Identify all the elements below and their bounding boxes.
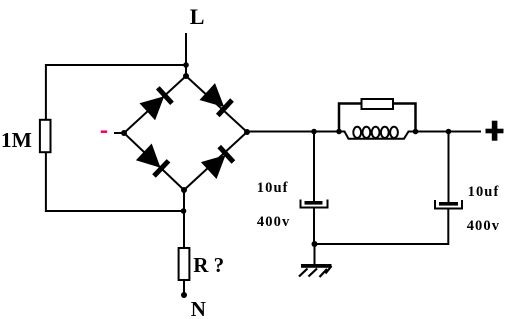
terminal label L: [190, 4, 205, 29]
svg-text:400v: 400v: [467, 218, 500, 234]
resistor R2 (parallel with choke): [362, 99, 394, 109]
resistor R?: [179, 248, 190, 280]
svg-text:10uf: 10uf: [468, 184, 500, 200]
inductor L1 (choke): [339, 127, 416, 139]
wire junction to resistor R?: [183, 211, 185, 248]
wire left capacitor top lead: [313, 132, 315, 202]
diode D1: [140, 88, 173, 120]
terminal label N: [191, 297, 206, 319]
node junction right capacitor: [446, 129, 452, 135]
wire parallel resistor right riser: [393, 104, 416, 132]
svg-text:R ?: R ?: [193, 253, 224, 277]
wire top horizontal to 1M branch: [45, 64, 186, 66]
label C2 400v: [467, 218, 500, 234]
wire bottom horizontal of 1M loop: [45, 210, 184, 212]
wire left vertical lower (1M to bottom): [45, 152, 47, 211]
wire bottom horizontal between capacitors: [315, 243, 449, 245]
node minus stub: [114, 132, 124, 134]
svg-text:L: L: [190, 4, 205, 29]
diode D2: [200, 83, 233, 115]
svg-text:400v: 400v: [257, 214, 290, 230]
wire bridge bottom to junction: [183, 190, 185, 211]
wire left vertical upper (to 1M): [45, 64, 47, 120]
terminal plus: [486, 121, 504, 141]
diode D4: [201, 147, 234, 179]
wire ground lead: [314, 244, 316, 265]
wire left capacitor bottom lead: [313, 208, 315, 245]
node ground junction: [312, 241, 318, 247]
resistor 1M: [40, 120, 51, 152]
wire right capacitor bottom lead: [447, 209, 449, 246]
node bridge top: [183, 73, 189, 79]
node inductor right: [413, 129, 419, 135]
wire bridge bottom-right arm: [184, 132, 247, 190]
node junction top (L wire to 1M loop): [183, 62, 189, 68]
ground: [299, 264, 332, 277]
label 1M: [1, 128, 32, 152]
wire bridge top-right arm: [186, 76, 247, 132]
wire bridge bottom-left arm: [124, 133, 184, 190]
node bridge right: [244, 129, 250, 135]
label C1 10uf: [257, 180, 289, 196]
wire right capacitor top lead: [448, 132, 450, 203]
wire L vertical: [185, 33, 187, 76]
svg-text:N: N: [191, 297, 206, 319]
diode D3: [136, 144, 169, 177]
wire output to plus: [416, 131, 482, 133]
wire bridge top-left arm: [124, 76, 186, 133]
node inductor left: [336, 129, 342, 135]
wire parallel resistor left riser: [339, 104, 362, 132]
label C2 10uf: [468, 184, 500, 200]
node bridge left: [121, 130, 127, 136]
node junction left capacitor: [311, 129, 317, 135]
label minus (magenta): [101, 130, 107, 133]
label R ?: [193, 253, 224, 277]
capacitor C2: [435, 200, 462, 209]
svg-text:10uf: 10uf: [257, 180, 289, 196]
svg-text:1M: 1M: [1, 128, 32, 152]
wire main output horizontal: [247, 131, 339, 133]
label C1 400v: [257, 214, 290, 230]
node bridge bottom: [181, 187, 187, 193]
node N endpoint: [181, 292, 187, 298]
node bottom junction: [181, 208, 187, 214]
capacitor C1: [301, 200, 328, 208]
wire R? to N: [183, 280, 185, 295]
